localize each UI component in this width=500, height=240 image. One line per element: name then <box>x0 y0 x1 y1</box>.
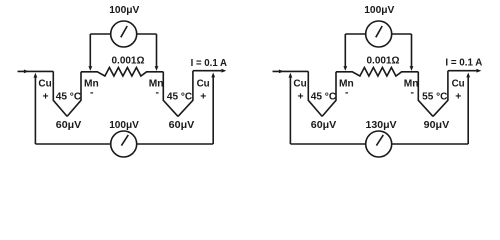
wire: right circuit Cu lead right <box>433 71 448 117</box>
wire: left circuit current input lead <box>18 70 54 74</box>
svg-text:-: - <box>156 87 160 98</box>
wire: right circuit bottom right segment <box>392 143 469 145</box>
svg-text:+: + <box>43 91 49 102</box>
wire: left circuit top meter lead right <box>137 33 157 35</box>
svg-text:45 °C: 45 °C <box>167 92 193 103</box>
svg-text:90μV: 90μV <box>424 120 450 131</box>
wire: left circuit Cu lead left <box>53 71 67 116</box>
wire: left circuit voltmeter tap left <box>34 73 38 144</box>
svg-text:-: - <box>90 87 94 98</box>
svg-text:Cu: Cu <box>293 79 306 90</box>
wire: left circuit top meter probe left <box>88 34 92 71</box>
wire: left circuit top meter probe right <box>155 34 159 71</box>
wire: right circuit voltmeter tap right <box>466 73 470 145</box>
svg-text:60μV: 60μV <box>169 120 195 131</box>
svg-text:0.001Ω: 0.001Ω <box>112 56 145 67</box>
svg-text:-: - <box>345 87 349 98</box>
svg-text:+: + <box>298 91 304 102</box>
resistor 0.001 ohm shunt (left circuit) <box>81 68 163 77</box>
wire: right circuit Mn lead left <box>322 72 336 117</box>
wire: left circuit Mn lead left <box>67 72 81 117</box>
wire: right circuit voltmeter tap left <box>289 73 293 144</box>
wire: right circuit Cu lead left <box>308 71 322 116</box>
svg-text:I = 0.1 A: I = 0.1 A <box>445 58 482 69</box>
wire: right circuit top meter lead left <box>345 33 365 35</box>
galvanometer G1 (top meter, left circuit) <box>111 21 137 47</box>
galvanometer G4 (bottom meter, right circuit) <box>366 131 392 157</box>
wire: left circuit current output lead <box>193 69 226 73</box>
wire: right circuit top meter probe right <box>410 34 414 71</box>
wire: left circuit Cu lead right <box>178 71 193 117</box>
wire: left circuit Mn lead right <box>163 72 178 117</box>
svg-text:60μV: 60μV <box>311 120 337 131</box>
svg-text:130μV: 130μV <box>366 120 397 131</box>
svg-text:45 °C: 45 °C <box>56 92 82 103</box>
svg-text:100μV: 100μV <box>109 5 139 16</box>
svg-text:Cu: Cu <box>452 79 465 90</box>
resistor 0.001 ohm shunt (right circuit) <box>336 68 418 77</box>
wire: right circuit bottom left segment <box>290 143 365 145</box>
svg-text:60μV: 60μV <box>56 120 82 131</box>
svg-text:Cu: Cu <box>38 79 51 90</box>
svg-text:55 °C: 55 °C <box>422 92 448 103</box>
svg-text:100μV: 100μV <box>364 5 394 16</box>
wire: left circuit bottom right segment <box>137 143 214 145</box>
svg-text:+: + <box>455 91 461 102</box>
svg-text:+: + <box>200 91 206 102</box>
svg-text:-: - <box>411 87 415 98</box>
wire: left circuit bottom left segment <box>35 143 110 145</box>
wire: right circuit current input lead <box>273 70 309 74</box>
wire: right circuit current output lead <box>448 69 481 73</box>
svg-text:100μV: 100μV <box>109 120 139 131</box>
wire: left circuit voltmeter tap right <box>211 73 215 145</box>
svg-text:0.001Ω: 0.001Ω <box>367 56 400 67</box>
wire: right circuit top meter probe left <box>343 34 347 71</box>
galvanometer G3 (top meter, right circuit) <box>366 21 392 47</box>
wire: left circuit top meter lead left <box>90 33 110 35</box>
svg-text:45 °C: 45 °C <box>311 92 337 103</box>
wire: right circuit Mn lead right <box>418 72 433 117</box>
galvanometer G2 (bottom meter, left circuit) <box>111 131 137 157</box>
svg-text:I = 0.1 A: I = 0.1 A <box>191 58 228 69</box>
wire: right circuit top meter lead right <box>392 33 412 35</box>
svg-text:Cu: Cu <box>197 79 210 90</box>
